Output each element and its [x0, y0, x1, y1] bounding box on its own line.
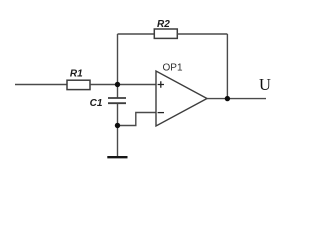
ground	[107, 156, 127, 158]
wire feedback top right	[177, 33, 227, 35]
op-amp plus pin mark	[158, 81, 164, 87]
svg-text:R2: R2	[157, 19, 170, 30]
resistor R1	[67, 80, 90, 89]
node junction at output	[225, 96, 230, 101]
node junction at R1 output	[115, 82, 120, 87]
wire output	[207, 98, 266, 100]
svg-text:R1: R1	[70, 68, 83, 79]
wire feedback down to output	[226, 34, 228, 99]
op-amp minus pin mark	[158, 112, 164, 114]
resistor R2	[154, 29, 177, 38]
wire inverting input step	[118, 113, 157, 126]
svg-text:C1: C1	[90, 98, 103, 109]
wire feedback up	[117, 34, 119, 85]
svg-text:U: U	[259, 75, 271, 94]
wire C1 bottom lead to ground	[117, 104, 119, 157]
svg-text:OP1: OP1	[163, 62, 183, 73]
wire feedback top left	[118, 33, 155, 35]
op-amp OP1	[156, 71, 207, 126]
capacitor C1	[108, 98, 126, 103]
wire R1 to op-amp noninverting input	[90, 84, 156, 86]
node junction at C1 bottom	[115, 123, 120, 128]
wire input left	[15, 84, 67, 86]
wire C1 top lead	[117, 85, 119, 98]
